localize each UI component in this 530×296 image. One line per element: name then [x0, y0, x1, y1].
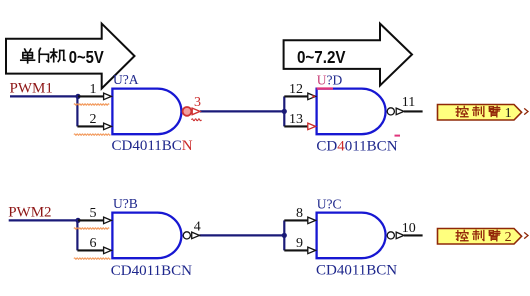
svg-text:8: 8	[296, 206, 303, 221]
svg-text:0~7.2V: 0~7.2V	[297, 47, 346, 67]
svg-text:0~5V: 0~5V	[69, 47, 104, 67]
svg-text:CD4011BCN: CD4011BCN	[111, 263, 192, 279]
svg-text:1: 1	[505, 106, 512, 121]
svg-text:3: 3	[194, 95, 201, 110]
svg-text:6: 6	[90, 236, 97, 251]
svg-text:2: 2	[90, 112, 97, 127]
svg-text:13: 13	[289, 112, 303, 127]
svg-text:PWM2: PWM2	[8, 205, 51, 221]
svg-text:CD4011BCN: CD4011BCN	[316, 262, 397, 278]
svg-text:5: 5	[90, 206, 97, 221]
svg-text:4: 4	[194, 220, 201, 235]
svg-text:1: 1	[90, 82, 97, 97]
svg-text:CD4011BCN: CD4011BCN	[316, 138, 397, 154]
svg-text:CD4011BCN: CD4011BCN	[112, 138, 193, 154]
svg-text:PWM1: PWM1	[10, 81, 53, 97]
svg-text:U?B: U?B	[113, 196, 138, 211]
svg-text:U?D: U?D	[317, 72, 343, 87]
svg-text:U?A: U?A	[113, 72, 139, 87]
svg-text:11: 11	[402, 95, 415, 110]
svg-text:9: 9	[296, 236, 303, 251]
svg-text:2: 2	[505, 230, 512, 245]
svg-text:U?C: U?C	[317, 196, 342, 211]
svg-text:12: 12	[289, 82, 303, 97]
svg-text:10: 10	[402, 221, 416, 236]
